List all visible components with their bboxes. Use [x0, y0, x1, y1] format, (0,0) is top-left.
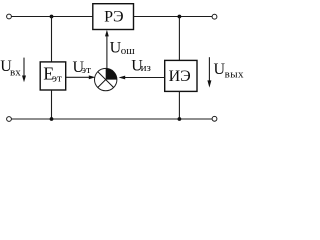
wire from Еэт down to bottom rail: [51, 90, 53, 119]
svg-text:ош: ош: [121, 45, 136, 57]
block РЭ (regulating element): [93, 4, 134, 30]
arrowhead right into comparator: [89, 75, 96, 79]
wire Uош comparator to РЭ: [106, 36, 108, 68]
arrowhead up into РЭ: [105, 30, 109, 37]
svg-text:вых: вых: [225, 69, 244, 81]
node junction top-left: [50, 15, 54, 19]
node junction top-right: [178, 15, 182, 19]
input terminal top-left: [7, 14, 12, 19]
wire bottom rail: [12, 118, 213, 120]
arrow Uвх down: [23, 58, 25, 77]
node junction bottom-right: [178, 117, 182, 121]
wire top rail right: [134, 16, 213, 18]
svg-text:эт: эт: [52, 73, 62, 85]
output terminal top-right: [212, 14, 217, 19]
output terminal bottom-right: [212, 116, 217, 121]
input terminal bottom-left: [7, 117, 12, 122]
svg-text:РЭ: РЭ: [104, 8, 123, 25]
svg-text:U: U: [110, 39, 122, 56]
svg-text:ИЭ: ИЭ: [169, 68, 191, 85]
block Еэт (reference source): [40, 62, 65, 90]
arrow Uвых down: [208, 57, 210, 81]
wire from top rail down to Еэт: [51, 17, 53, 62]
arrowhead left into comparator: [119, 76, 126, 80]
block ИЭ (measuring element): [165, 60, 197, 91]
svg-text:из: из: [141, 62, 151, 74]
svg-text:вх: вх: [10, 66, 21, 78]
wire from ИЭ down to bottom rail: [178, 91, 180, 119]
wire top rail left: [12, 16, 93, 18]
wire Uиз from ИЭ to comparator: [124, 77, 165, 79]
node junction bottom-left: [50, 117, 54, 121]
svg-text:эт: эт: [81, 64, 91, 76]
wire from top rail down to ИЭ: [178, 17, 180, 61]
comparator EC (comparison element): [95, 68, 117, 90]
wire Uэт from Еэт to comparator: [66, 76, 90, 78]
